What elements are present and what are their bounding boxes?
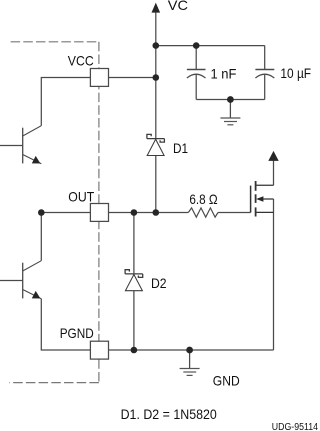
capacitor C1 1 nF (187, 70, 206, 79)
resistor R1 6.8 ohm (188, 208, 218, 217)
pin box OUT (90, 204, 108, 222)
wire cap ground bus (196, 99, 265, 101)
pin box VCC (90, 69, 108, 87)
wire M1 drain up (273, 161, 275, 186)
node: rail / OUT junction (153, 209, 160, 216)
wire C1 top drop (195, 46, 197, 70)
dashed IC boundary (bottom edge) (9, 382, 99, 384)
VC supply arrow (152, 3, 161, 13)
svg-text:D1: D1 (173, 140, 188, 156)
node: D2 top junction (131, 209, 138, 216)
wire C2 bottom (264, 75, 266, 100)
transistor M1 (N-channel MOSFET) (251, 181, 274, 217)
wire C2 top drop (264, 46, 266, 70)
wire Q2 emitter down to PGND bus (41, 299, 90, 350)
wire OUT box left (41, 212, 90, 214)
svg-text:D2: D2 (151, 275, 167, 291)
node: C1 branch (193, 42, 200, 49)
Q2 emitter arrow (32, 291, 41, 299)
node: GND junction (186, 347, 193, 354)
wire ground 1 stub (229, 100, 231, 118)
svg-text:6.8 Ω: 6.8 Ω (189, 191, 217, 207)
dashed IC boundary (top edge) (11, 41, 99, 43)
svg-text:VCC: VCC (68, 53, 94, 69)
wire VCC to collector (41, 78, 90, 126)
svg-text:GND: GND (213, 372, 240, 388)
svg-text:10 µF: 10 µF (280, 65, 311, 81)
wire D1 anode to OUT (155, 156, 157, 213)
wire C1 bottom (195, 75, 197, 100)
wire ground 2 stub (189, 350, 191, 368)
node: D2 bottom junction (131, 347, 138, 354)
node: OUT left junction (38, 209, 45, 216)
wire PGND bus right (109, 349, 274, 351)
diode D1 (Schottky) (147, 134, 165, 155)
svg-text:1 nF: 1 nF (211, 65, 237, 81)
node: cap ground (227, 96, 234, 103)
svg-text:UDG-95114: UDG-95114 (272, 422, 318, 431)
ground (power GND) (180, 369, 200, 376)
M1 body arrow (256, 196, 263, 201)
ground (capacitor bus) (220, 118, 240, 125)
dashed IC boundary (right edge) (98, 42, 100, 383)
node: rail / cap bus (153, 42, 160, 49)
svg-text:PGND: PGND (60, 325, 94, 341)
transistor Q2 (lower NPN) (0, 261, 41, 299)
wire D2 anode to PGND bus (133, 291, 135, 350)
wire OUT box right to resistor (109, 212, 189, 214)
transistor Q1 (upper NPN) (0, 126, 41, 164)
diode D2 (Schottky) (125, 270, 143, 291)
Q1 emitter arrow (32, 156, 41, 164)
capacitor C2 10 uF (255, 70, 274, 79)
svg-text:D1. D2 = 1N5820: D1. D2 = 1N5820 (121, 406, 217, 422)
svg-text:VC: VC (168, 0, 188, 13)
node: VCC / rail (153, 74, 160, 81)
wire VC rail (arrow to D1 cathode) (155, 12, 157, 138)
wire OUT to D2 cathode (133, 213, 135, 274)
wire resistor to gate (218, 212, 251, 214)
wire VCC box to rail (109, 77, 156, 79)
M1 drain arrow (to supply) (268, 151, 278, 161)
wire top cap bus (156, 45, 265, 47)
pin box PGND (90, 341, 108, 359)
svg-text:OUT: OUT (68, 188, 94, 204)
wire left rail OUT to Q2 collector (40, 213, 42, 261)
wire M1 source down (273, 199, 275, 350)
